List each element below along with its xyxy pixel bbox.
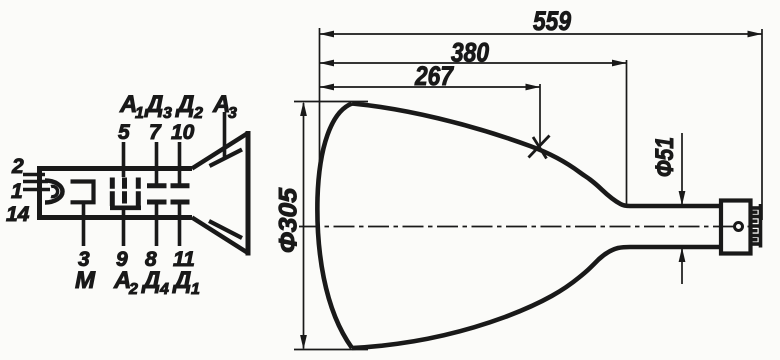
funnel cone to screen xyxy=(192,133,248,253)
bulb screen face xyxy=(317,104,352,349)
extension line left (screen face) xyxy=(319,28,321,168)
arrow 559 left xyxy=(320,31,335,38)
arrow dia305 bottom xyxy=(300,335,307,350)
svg-text:3: 3 xyxy=(228,105,237,122)
anode A1 middle diaphragm xyxy=(122,178,127,204)
svg-text:2: 2 xyxy=(128,281,138,298)
arrow 267 right xyxy=(526,84,541,91)
deflection plate D1 (lower right) xyxy=(171,200,190,205)
extension line 380 (neck start) xyxy=(626,60,628,206)
heater hook xyxy=(51,186,58,196)
arrow 267 left xyxy=(320,84,335,91)
svg-text:3: 3 xyxy=(163,105,172,122)
dia 305 bottom extension xyxy=(294,349,368,351)
heater lead pin 14 xyxy=(23,188,50,192)
base pin text marks xyxy=(753,211,758,242)
cathode lead pin 2 xyxy=(23,173,45,177)
arrow dia51 bottom xyxy=(679,248,686,263)
deflection plate D3 (upper left) xyxy=(147,183,167,188)
heater lead pin 1 xyxy=(23,180,48,184)
lead pin 11 (D1) xyxy=(178,204,182,247)
base cap xyxy=(721,201,751,254)
base key circle xyxy=(735,223,743,231)
dimension lines xyxy=(294,28,762,350)
anode base bar xyxy=(110,206,141,211)
deflection plate D4 (lower left) xyxy=(147,200,167,205)
surface point mark X on cone xyxy=(529,136,550,159)
centerline xyxy=(299,226,757,228)
dim line 559 xyxy=(320,33,763,35)
dim line 380 xyxy=(320,62,627,64)
lead A3 xyxy=(223,112,227,157)
lead pin 9 (A2) xyxy=(122,208,126,246)
svg-text:Ф51: Ф51 xyxy=(651,137,679,177)
deflection plate D2 (upper right) xyxy=(171,183,190,188)
bulb bottom edge xyxy=(352,247,723,348)
svg-text:Д: Д xyxy=(172,267,191,294)
svg-text:559: 559 xyxy=(533,6,571,36)
svg-text:7: 7 xyxy=(149,121,162,144)
svg-text:2: 2 xyxy=(11,155,24,178)
svg-text:Д: Д xyxy=(144,91,163,118)
svg-text:267: 267 xyxy=(414,61,455,91)
svg-text:4: 4 xyxy=(159,281,169,298)
arrow dia305 top xyxy=(300,102,307,117)
dim line 267 xyxy=(320,86,541,88)
svg-text:Ф305: Ф305 xyxy=(275,187,303,253)
svg-text:380: 380 xyxy=(451,38,489,68)
anode A1 cylinder: right arm xyxy=(136,178,141,207)
extension line right (base end) xyxy=(761,29,763,220)
screen face line xyxy=(246,131,251,256)
anode A3 coating lower xyxy=(209,221,242,238)
extension line 267 xyxy=(539,84,541,148)
svg-text:10: 10 xyxy=(171,121,195,144)
dim line dia305 xyxy=(303,103,305,349)
anode A3 coating upper xyxy=(210,150,243,167)
anode A1 cylinder: left arm xyxy=(110,178,115,207)
modulator M (bracket) xyxy=(71,182,94,203)
svg-text:1: 1 xyxy=(11,180,23,203)
arrow 380 right xyxy=(612,60,627,67)
arrow 559 right xyxy=(748,31,763,38)
svg-text:Д: Д xyxy=(175,91,194,118)
dia 305 top extension xyxy=(294,101,368,103)
svg-text:М: М xyxy=(75,267,96,294)
svg-text:Д: Д xyxy=(141,267,160,294)
dim line dia51 upper xyxy=(681,133,683,205)
dim line dia51 lower xyxy=(681,249,683,285)
modulator lead to pin 3 xyxy=(82,203,86,246)
tube envelope (rectangle open to funnel) xyxy=(39,166,193,220)
arrow 380 left xyxy=(320,60,335,67)
arrow dia51 top xyxy=(679,191,686,206)
base pins xyxy=(751,204,761,248)
cathode K (arc) xyxy=(45,181,63,203)
svg-text:1: 1 xyxy=(135,105,144,122)
svg-text:5: 5 xyxy=(118,121,130,144)
lead pin 7 (D3) xyxy=(155,142,159,184)
svg-text:14: 14 xyxy=(6,203,30,226)
svg-text:1: 1 xyxy=(191,281,200,298)
lead pin 8 (D4) xyxy=(155,204,159,247)
svg-text:2: 2 xyxy=(193,105,203,122)
bulb top edge xyxy=(352,104,723,207)
lead pin 10 (D2) xyxy=(178,142,182,184)
lead pin 5 (A1) xyxy=(122,142,126,177)
